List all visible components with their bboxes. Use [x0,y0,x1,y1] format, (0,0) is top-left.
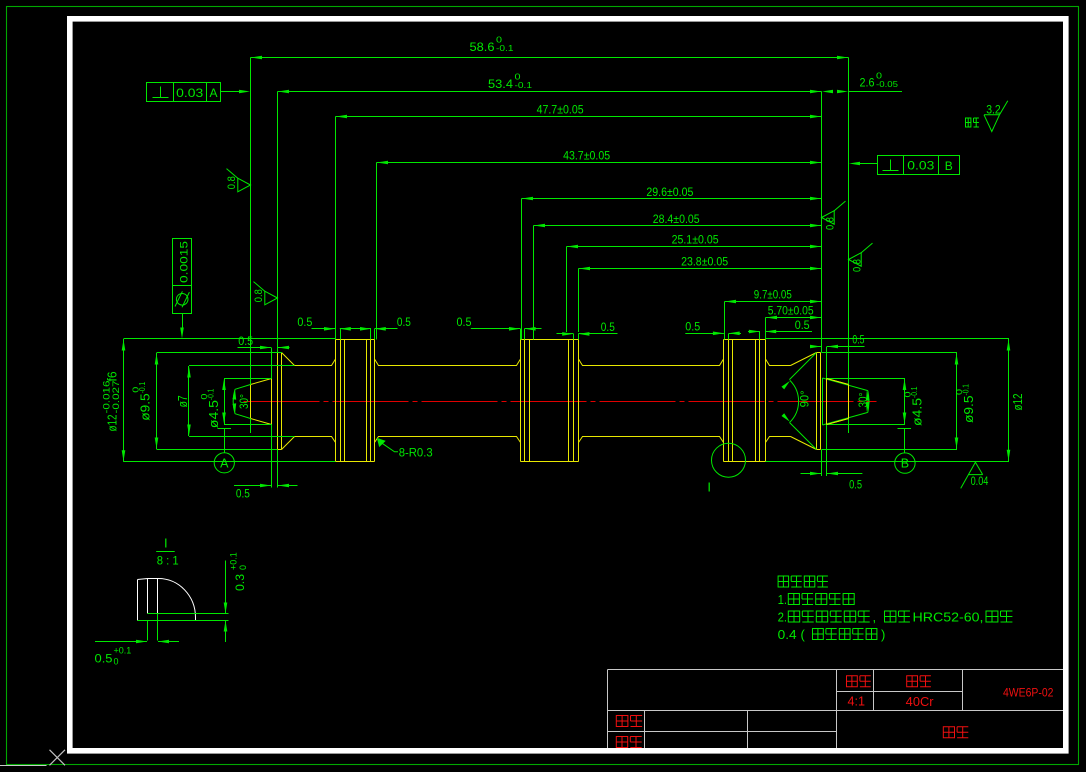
svg-text:ø7: ø7 [176,395,190,407]
svg-text:0.8: 0.8 [825,217,837,230]
detail view I outline [138,579,196,621]
dim dia4.5 right [904,379,906,425]
neck 2 [375,359,521,443]
right expanding cone [791,353,817,450]
technical requirements text [778,576,828,587]
svg-text:29.6±0.05: 29.6±0.05 [646,185,693,199]
svg-text:0.5: 0.5 [849,478,862,492]
dim 0.5 right face top [810,346,821,348]
dim 0.5 land3 right groove [748,331,760,333]
svg-text:30°: 30° [237,394,251,409]
svg-text:-0.1: -0.1 [910,386,919,398]
dim 43.7 [377,162,822,164]
perpendicularity frame 0.03 A [147,83,221,102]
svg-text:4WE6P-02: 4WE6P-02 [1003,686,1054,700]
left chamfer cone [282,353,295,450]
dim 47.7 [336,116,822,118]
svg-text:I: I [164,536,168,551]
svg-text:8 : 1: 8 : 1 [157,554,179,568]
dim dia4.5 left [224,379,226,425]
title block grid [608,670,1064,749]
detail dim 0.3 [148,613,229,615]
svg-text:I: I [707,480,711,495]
vertical extension lines [251,58,849,488]
perpendicularity frame 0.03 B [878,156,960,175]
svg-text:-0.1: -0.1 [962,384,971,396]
svg-text:23.8±0.05: 23.8±0.05 [681,255,728,269]
dim 23.8 [579,268,822,270]
dim 58.6 [251,57,849,59]
svg-text:0.5: 0.5 [236,487,250,501]
svg-text:1.: 1. [778,592,788,607]
dim 0.5 land1 left groove [312,328,336,330]
svg-text:): ) [881,627,885,642]
svg-text:0.8: 0.8 [253,289,265,302]
svg-text:-0.1: -0.1 [207,388,216,400]
right center hole (over dim lines) [827,379,849,425]
svg-text:,: , [873,610,877,625]
svg-text:-0.016: -0.016 [102,381,112,414]
svg-text:9.7±0.05: 9.7±0.05 [754,288,792,302]
svg-text:28.4±0.05: 28.4±0.05 [653,212,700,226]
neck 1 [295,359,336,443]
dim 0.5 left face top [238,347,272,349]
svg-text:ø12: ø12 [1011,393,1025,410]
dim 28.4 [534,225,822,227]
right end face [817,353,821,450]
svg-text:0.5: 0.5 [95,652,113,666]
svg-text:0.5: 0.5 [601,320,615,334]
svg-text:-0.027: -0.027 [111,381,121,414]
bottom-left gray line [0,765,47,767]
svg-text:30°: 30° [856,392,870,407]
cylindricity frame 0.0015 [173,239,192,314]
svg-text:43.7±0.05: 43.7±0.05 [563,149,610,163]
svg-text:53.4: 53.4 [488,77,513,91]
svg-text:-0.1: -0.1 [515,81,533,90]
detail I circle [712,443,746,477]
svg-text:ø9.5: ø9.5 [962,395,976,423]
left end face [278,353,282,450]
dim dia12 right [1008,339,1010,461]
datum B [898,428,912,430]
svg-text:-0.1: -0.1 [496,44,514,53]
dim 0.5 land2 right groove [557,333,574,335]
svg-text:HRC52-60,: HRC52-60, [913,610,984,625]
90 deg dim [789,353,816,450]
svg-text:0.8: 0.8 [852,259,864,272]
svg-text:0.03: 0.03 [176,86,203,100]
right center hole [827,379,849,425]
dim dia7 left [188,366,190,436]
runout 0.04 symbol [961,462,983,488]
svg-text:+0.1: +0.1 [229,552,239,570]
svg-text:0.0015: 0.0015 [179,241,191,283]
svg-text:0.8: 0.8 [226,176,238,189]
svg-text:ø9.5: ø9.5 [139,393,153,421]
svg-text:ø4.5: ø4.5 [911,398,925,426]
dim 25.1 [567,246,822,248]
left center hole [251,379,272,425]
svg-text:A: A [220,456,229,470]
title block texts [847,676,871,687]
dim 2.6 [849,91,903,93]
dim 53.4 [278,91,822,93]
svg-text:+0.1: +0.1 [114,646,132,656]
svg-text:ø12: ø12 [106,414,120,431]
land 2 [521,340,579,462]
dim 0.5 land2 left groove [471,328,520,330]
svg-text:0.5: 0.5 [457,315,472,329]
svg-text:58.6: 58.6 [470,40,495,54]
dim 29.6 [522,198,822,200]
neck 4 [766,359,791,443]
svg-text:4:1: 4:1 [848,695,866,709]
svg-text:0.5: 0.5 [852,332,864,346]
svg-text:0.04: 0.04 [971,476,989,488]
30 deg left [235,385,251,419]
svg-text:B: B [945,159,953,173]
svg-text:47.7±0.05: 47.7±0.05 [537,103,584,117]
svg-text:5.70±0.05: 5.70±0.05 [768,304,814,318]
svg-text:0.5: 0.5 [397,315,411,329]
crosshair X mark [50,750,66,766]
neck 3 [579,359,724,443]
leader 8-R0.3 [377,438,386,447]
roughness 0.8 [265,291,278,305]
land 3 [724,340,766,462]
dim dia9.5 right [956,353,958,449]
datum A [218,428,232,430]
svg-text:0.5: 0.5 [685,320,700,334]
svg-text:90°: 90° [798,390,812,407]
svg-text:25.1±0.05: 25.1±0.05 [672,233,719,247]
svg-text:-0.1: -0.1 [138,381,147,393]
dim 0.5 land3 left groove [685,333,724,335]
svg-text:0: 0 [114,657,119,667]
dim dia9.5 left [156,353,158,449]
svg-text:0.03: 0.03 [907,159,934,173]
svg-text:B: B [901,457,909,471]
svg-text:40Cr: 40Cr [906,695,934,709]
svg-text:0.5: 0.5 [238,334,253,348]
dim 0.5 right face bottom [801,473,822,475]
svg-text:0.4: 0.4 [778,627,797,642]
roughness 0.8 [822,211,835,225]
svg-text:2.6: 2.6 [860,76,875,90]
centerline [244,401,877,403]
land 1 [336,340,375,462]
dim dia12 f6 left [123,339,125,462]
roughness 3.2 (other surfaces) [966,118,979,127]
svg-text:ø4.5: ø4.5 [207,400,221,428]
svg-text:0.3: 0.3 [233,574,247,591]
svg-text:0.5: 0.5 [795,318,810,332]
svg-text:(: ( [801,627,806,642]
dim 5.70 [766,317,822,319]
horizontal extension lines [124,339,1010,462]
svg-text:A: A [209,86,217,100]
svg-text:2.: 2. [778,610,788,625]
dim 9.7 [725,301,822,303]
svg-text:-0.05: -0.05 [876,80,899,89]
svg-text:0.5: 0.5 [297,315,312,329]
svg-text:f6: f6 [106,371,120,381]
roughness 0.8 [238,178,251,192]
roughness 0.8 [849,253,862,267]
svg-text:0: 0 [238,565,248,570]
svg-text:8-R0.3: 8-R0.3 [399,446,433,460]
detail dim 0.5 [147,621,149,641]
dim 0.5 left face bottom [234,485,271,487]
30 deg right [823,378,868,425]
